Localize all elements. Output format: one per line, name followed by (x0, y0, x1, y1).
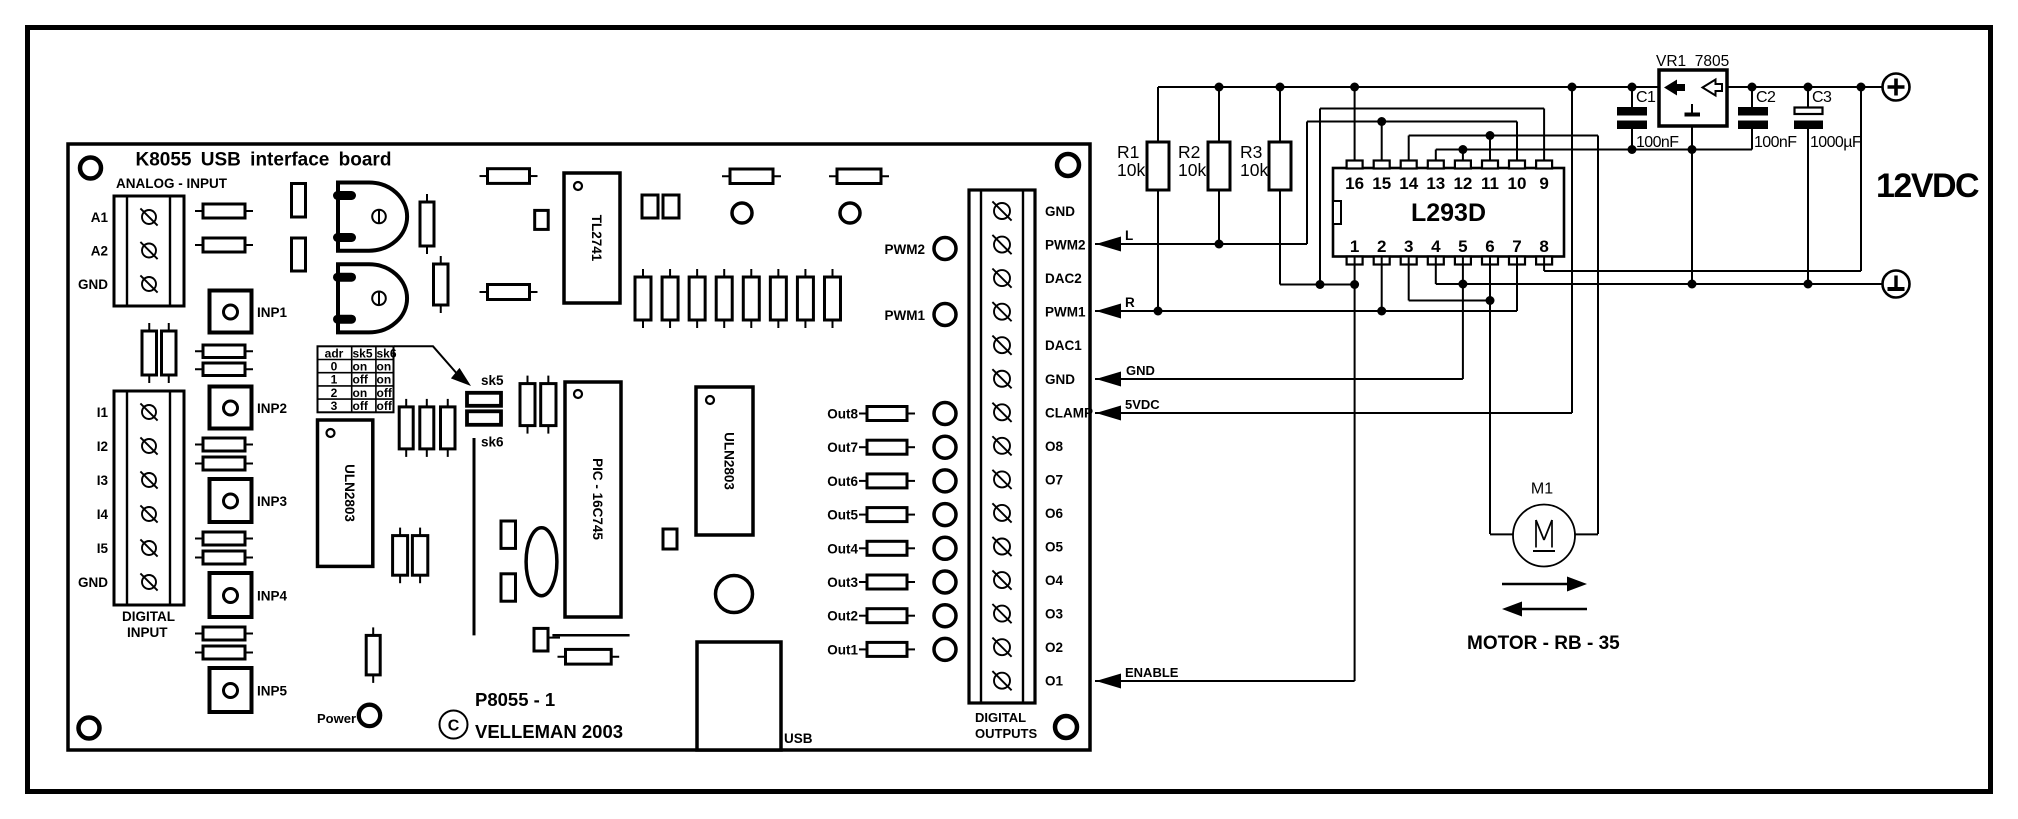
svg-text:1000µF: 1000µF (1810, 134, 1862, 151)
address table adr sk5 sk6 (318, 346, 397, 413)
divider line sk6 (473, 438, 476, 635)
arrow L (1096, 237, 1121, 252)
svg-text:DAC1: DAC1 (1045, 338, 1082, 353)
resistor R3 (1269, 142, 1291, 190)
capacitor C1 (1617, 87, 1647, 150)
node enable branch (1316, 280, 1325, 289)
node 12V plus (1857, 83, 1866, 92)
resistor Out5 (859, 508, 915, 522)
LED Out5 (934, 504, 956, 526)
wire L line (1095, 243, 1307, 245)
svg-text:I1: I1 (97, 405, 109, 420)
wire out34 horizontal (1409, 135, 1598, 137)
svg-text:6: 6 (1485, 237, 1494, 256)
node pin2 R net (1377, 307, 1386, 316)
resistor Out2 (859, 609, 915, 623)
resistor top middle-left (480, 169, 538, 184)
svg-text:11: 11 (1481, 174, 1499, 193)
svg-text:C: C (448, 718, 460, 735)
svg-text:9: 9 (1539, 174, 1548, 193)
wire R3 top (1279, 87, 1281, 142)
resistor pair below ULN2803 (393, 528, 428, 584)
LED PWM1 (934, 304, 956, 326)
jumper INP2 (210, 387, 252, 429)
screw O1 out15 (992, 671, 1011, 690)
capacitor pair beside crystal (501, 521, 516, 601)
svg-text:Out5: Out5 (827, 508, 858, 523)
wire pin11 up (1489, 136, 1491, 161)
resistor pair INP1-INP2 b (195, 363, 253, 376)
node pin5 gnd (1458, 280, 1467, 289)
wire pin1 down enable (1354, 257, 1356, 682)
svg-text:10k: 10k (1178, 160, 1206, 180)
svg-text:off: off (377, 399, 393, 413)
svg-text:O7: O7 (1045, 472, 1063, 487)
screw O4 out12 (992, 570, 1011, 589)
svg-text:sk5: sk5 (353, 346, 373, 360)
wire VR1 gnd down (1691, 126, 1693, 284)
USB connector (697, 642, 781, 750)
svg-text:INP2: INP2 (257, 401, 287, 416)
jumper INP4 (210, 573, 252, 617)
resistor R2 (1208, 142, 1230, 190)
svg-text:C3: C3 (1812, 89, 1832, 106)
trimmer RV2 (333, 264, 407, 332)
screw O5 out11 (992, 537, 1011, 556)
svg-text:PIC - 16C745: PIC - 16C745 (590, 458, 605, 540)
wire motor right vertical (1597, 136, 1599, 535)
resistor single above Power (366, 627, 380, 683)
svg-text:INP1: INP1 (257, 305, 288, 320)
node 5V R2 (1215, 83, 1224, 92)
resistor pair INP4-INP5 a (195, 627, 253, 640)
svg-text:DIGITAL: DIGITAL (122, 609, 175, 624)
wire 12V vertical (1860, 87, 1862, 271)
svg-text:VELLEMAN 2003: VELLEMAN 2003 (475, 721, 623, 742)
svg-text:R: R (1125, 295, 1135, 310)
resistor top for LD1 (722, 169, 781, 184)
screw DAC2 out3 (992, 269, 1011, 288)
screw I3 (140, 471, 157, 488)
LED Out3 (934, 571, 956, 593)
svg-text:INP5: INP5 (257, 684, 288, 699)
svg-text:CLAMP: CLAMP (1045, 405, 1093, 420)
IC PIC-16C745 (565, 382, 621, 617)
capacitor C2 (1738, 87, 1768, 150)
screw GND out6 (992, 369, 1011, 388)
resistor bottom middle (558, 649, 620, 664)
wire out12 horizontal (1409, 300, 1490, 302)
LED LD2 (840, 203, 860, 223)
LED Out4 (934, 537, 956, 559)
wire 12V horizontal (1544, 270, 1861, 272)
svg-text:A2: A2 (91, 244, 108, 259)
wire VR1 out to plus (1727, 86, 1882, 88)
svg-text:K8055 USB interface board: K8055 USB interface board (136, 149, 392, 170)
crystal X1 (526, 528, 557, 596)
screw GND (140, 573, 157, 590)
terminal block SK2 analog input (114, 196, 184, 306)
svg-text:Out4: Out4 (827, 541, 858, 556)
svg-text:sk6: sk6 (377, 346, 397, 360)
wire enable net horizontal (1280, 284, 1355, 286)
svg-text:on: on (353, 360, 368, 374)
svg-text:1: 1 (1350, 237, 1359, 256)
pin boxes top (1347, 161, 1553, 169)
mounting hole bottom-right (1055, 716, 1077, 738)
wire R line (1095, 310, 1517, 312)
svg-text:Out8: Out8 (827, 407, 858, 422)
svg-text:4: 4 (1431, 237, 1441, 256)
screw O2 out14 (992, 638, 1011, 657)
svg-text:on: on (377, 373, 392, 387)
node gnd C3 bottom (1804, 280, 1813, 289)
svg-text:ENABLE: ENABLE (1125, 665, 1179, 680)
svg-text:Power: Power (317, 711, 356, 726)
svg-text:Out1: Out1 (827, 642, 858, 657)
node R R1 (1154, 307, 1163, 316)
resistor Out8 (859, 407, 915, 421)
screw I4 (140, 505, 157, 522)
wire enable horizontal upper (1320, 108, 1544, 110)
svg-text:15: 15 (1372, 174, 1391, 193)
mounting hole top-left (80, 158, 101, 179)
wire pin2 down (1381, 257, 1383, 312)
svg-text:O5: O5 (1045, 540, 1064, 555)
wire pin6 down motor (1489, 257, 1491, 535)
svg-text:DAC2: DAC2 (1045, 271, 1082, 286)
jumper sk5 (467, 393, 501, 425)
screw I1 (140, 403, 157, 420)
svg-text:100nF: 100nF (1754, 134, 1797, 151)
svg-text:I3: I3 (97, 473, 109, 488)
label DIGITAL OUTPUTS (975, 710, 1037, 741)
svg-text:TL2741: TL2741 (589, 215, 604, 262)
svg-text:13: 13 (1426, 174, 1445, 193)
svg-text:off: off (377, 386, 393, 400)
screw analog GND (140, 275, 157, 292)
terminal earth (1883, 271, 1910, 298)
svg-text:PWM2: PWM2 (1045, 238, 1086, 253)
svg-text:GND: GND (78, 277, 108, 292)
svg-text:O6: O6 (1045, 506, 1064, 521)
resistor pair INP3-INP4 a (195, 532, 253, 545)
resistor row A1 (195, 204, 253, 218)
svg-text:P8055 - 1: P8055 - 1 (475, 689, 555, 710)
arrow GND (1096, 372, 1121, 387)
wire pin13 up (1435, 150, 1437, 161)
pin numbers top 16-9 (1345, 174, 1549, 193)
screw CLAMP out7 (992, 403, 1011, 422)
wire 5VDC vertical (1571, 87, 1573, 413)
svg-text:OUTPUTS: OUTPUTS (975, 726, 1037, 741)
svg-text:VR1 7805: VR1 7805 (1656, 53, 1729, 70)
screw I2 (140, 437, 157, 454)
resistor Out4 (859, 541, 915, 555)
resistor pair INP4-INP5 b (195, 646, 253, 659)
wire L net vertical (1306, 122, 1308, 245)
screw A2 (140, 242, 157, 259)
wire R2 top (1218, 87, 1220, 142)
screw O6 out10 (992, 503, 1011, 522)
svg-text:R3: R3 (1240, 142, 1262, 162)
pin numbers bottom 1-8 (1350, 237, 1549, 256)
screw GND out1 (992, 201, 1011, 220)
wire pin14 up (1408, 136, 1410, 161)
wire 5V rail (1158, 86, 1659, 88)
voltage regulator VR1 7805 (1659, 70, 1727, 126)
svg-text:USB: USB (784, 731, 813, 746)
wire pin3 down (1408, 257, 1410, 301)
resistor pair INP2-INP3 a (195, 438, 253, 451)
svg-text:L: L (1125, 228, 1133, 243)
svg-text:PWM1: PWM1 (1045, 305, 1086, 320)
node pin11 out3 (1486, 131, 1495, 140)
svg-text:C2: C2 (1756, 89, 1776, 106)
svg-text:5VDC: 5VDC (1125, 397, 1160, 412)
node C3 top (1804, 83, 1813, 92)
wire GND line (1095, 378, 1463, 380)
terminal block SK1 digital outputs (969, 190, 1035, 703)
jumper INP3 (210, 479, 252, 522)
node L R2 (1215, 240, 1224, 249)
resistor right of RV1 (420, 194, 434, 254)
svg-text:ANALOG - INPUT: ANALOG - INPUT (116, 176, 228, 191)
Power LED (359, 705, 380, 726)
diode small rect bottom (534, 628, 560, 651)
capacitor right of crystal (663, 529, 677, 549)
svg-text:10: 10 (1508, 174, 1527, 193)
capacitor pair beside trimmers (292, 184, 306, 272)
svg-text:C1: C1 (1636, 89, 1656, 106)
screw A1 (140, 208, 157, 225)
wire R1 bottom to R line (1157, 190, 1159, 311)
svg-text:I4: I4 (97, 507, 109, 522)
svg-text:GND: GND (1045, 204, 1075, 219)
svg-text:7: 7 (1512, 237, 1521, 256)
screw PWM1 out4 (992, 302, 1011, 321)
svg-text:PWM1: PWM1 (885, 308, 926, 323)
svg-text:Out3: Out3 (827, 575, 858, 590)
LED LD1 (732, 203, 752, 223)
node pin15 L net (1377, 117, 1386, 126)
svg-text:A1: A1 (91, 210, 109, 225)
svg-text:O2: O2 (1045, 640, 1063, 655)
arrow motor left (1502, 602, 1587, 617)
svg-text:5: 5 (1458, 237, 1467, 256)
svg-text:O3: O3 (1045, 607, 1064, 622)
resistor Out1 (859, 642, 915, 656)
wire gnd rail (1436, 283, 1882, 285)
op-amp U2 L293D body (1333, 168, 1564, 257)
node gnd vr1 bottom (1688, 280, 1697, 289)
wire pin4 down (1435, 257, 1437, 285)
svg-text:1: 1 (331, 373, 338, 387)
copyright symbol (440, 711, 468, 739)
svg-text:12VDC: 12VDC (1876, 167, 1979, 205)
wire segment bottom middle (552, 634, 629, 637)
resistor Out7 (859, 440, 915, 454)
LED Out7 (934, 436, 956, 458)
screw O7 out9 (992, 470, 1011, 489)
svg-text:14: 14 (1399, 174, 1418, 193)
node 5V pin16 (1350, 83, 1359, 92)
svg-text:off: off (353, 399, 369, 413)
resistor pair INP1-INP2 a (195, 345, 253, 358)
svg-text:on: on (377, 360, 392, 374)
svg-text:sk5: sk5 (481, 373, 504, 388)
LED Out8 (934, 403, 956, 425)
svg-text:Out6: Out6 (827, 474, 858, 489)
svg-text:O8: O8 (1045, 439, 1064, 454)
resistor pair above PIC (520, 376, 556, 434)
capacitor C3 polarized (1794, 87, 1823, 284)
svg-text:2: 2 (1377, 237, 1386, 256)
svg-text:GND: GND (78, 575, 108, 590)
pin boxes bottom (1347, 257, 1553, 265)
wire ENABLE line (1095, 680, 1355, 682)
svg-text:Out2: Out2 (827, 609, 858, 624)
wire R1 top (1157, 87, 1159, 142)
label R3 10k (1240, 142, 1268, 180)
wire pin10 up (1516, 122, 1518, 161)
node 5V C1 (1628, 83, 1637, 92)
mounting hole bottom-left (79, 718, 100, 739)
LED Out6 (934, 470, 956, 492)
svg-text:INP4: INP4 (257, 589, 288, 604)
svg-text:DIGITAL: DIGITAL (975, 710, 1026, 725)
mounting hole top-right (1057, 154, 1079, 176)
capacitor small mid (535, 210, 549, 229)
svg-text:on: on (353, 386, 368, 400)
capacitor pair top middle (642, 195, 679, 218)
wire gnd top horizontal (1436, 149, 1752, 151)
resistor Out6 (859, 474, 915, 488)
resistor pair INP2-INP3 b (195, 457, 253, 470)
node enable pin1 (1350, 280, 1359, 289)
wire pin7 down (1516, 257, 1518, 312)
node gnd C1 (1628, 145, 1637, 154)
label R1 10k (1117, 142, 1145, 180)
svg-text:adr: adr (325, 346, 344, 360)
svg-text:2: 2 (331, 386, 338, 400)
svg-text:MOTOR - RB - 35: MOTOR - RB - 35 (1467, 633, 1620, 654)
wire R3 bottom to enable net (1279, 190, 1281, 285)
svg-text:Out7: Out7 (827, 440, 858, 455)
vertical resistor pair left (142, 323, 176, 383)
wire pin15 up (1381, 122, 1383, 161)
arrow 5VDC (1096, 406, 1121, 421)
LED Out2 (934, 605, 956, 627)
wire pin16 to 5V (1354, 87, 1356, 161)
wire pin8 down (1543, 257, 1545, 272)
resistor group of three (399, 399, 455, 457)
svg-text:12: 12 (1453, 174, 1472, 193)
node gnd VR1 (1688, 145, 1697, 154)
jumper INP1 (210, 291, 252, 333)
pointer line to sk5 (394, 346, 471, 386)
resistor top for LD2 (829, 169, 889, 184)
resistor R1 (1147, 142, 1169, 190)
wire pin9 up (1543, 109, 1545, 161)
resistor mid-left (480, 285, 538, 300)
resistor pair INP3-INP4 b (195, 551, 253, 564)
svg-text:R2: R2 (1178, 142, 1200, 162)
motor M1 (1490, 505, 1598, 567)
screw O3 out13 (992, 604, 1011, 623)
svg-text:PWM2: PWM2 (885, 242, 926, 257)
terminal plus 12V (1883, 74, 1910, 101)
svg-text:10k: 10k (1240, 160, 1268, 180)
svg-text:sk6: sk6 (481, 435, 504, 450)
IC ULN2803 right (696, 387, 753, 535)
svg-text:I5: I5 (97, 541, 109, 556)
node pin12 gnd (1458, 145, 1467, 154)
arrow ENABLE (1096, 674, 1121, 689)
svg-text:O1: O1 (1045, 674, 1064, 689)
svg-text:ULN2803: ULN2803 (342, 464, 357, 522)
arrow motor right (1502, 577, 1587, 592)
svg-text:3: 3 (331, 399, 338, 413)
IC TL2741 (564, 173, 620, 303)
label DIGITAL INPUT (122, 609, 175, 640)
wire 5VDC line (1095, 412, 1572, 414)
svg-text:R1: R1 (1117, 142, 1139, 162)
screw DAC1 out5 (992, 336, 1011, 355)
electrolytic capacitor circle (716, 576, 753, 613)
wire pin12 up (1462, 150, 1464, 161)
svg-text:16: 16 (1345, 174, 1364, 193)
resistor row A2 (195, 238, 253, 252)
board outline K8055 (68, 144, 1090, 750)
resistor Out3 (859, 575, 915, 589)
svg-text:M1: M1 (1531, 481, 1553, 498)
screw I5 (140, 539, 157, 556)
svg-text:off: off (353, 373, 369, 387)
svg-text:3: 3 (1404, 237, 1413, 256)
LED Out1 (934, 638, 956, 660)
screw PWM2 out2 (992, 235, 1011, 254)
terminal block SK3 digital input (114, 391, 184, 605)
label R2 10k (1178, 142, 1206, 180)
svg-text:ULN2803: ULN2803 (722, 432, 737, 490)
node pin6 out2 (1486, 296, 1495, 305)
svg-text:0: 0 (331, 360, 338, 374)
resistor right of RV2 (434, 256, 449, 313)
LED PWM2 (934, 238, 956, 260)
node C2 top (1748, 83, 1757, 92)
jumper INP5 (210, 668, 252, 712)
wire R2 bottom to L line (1218, 190, 1220, 244)
wire enable vertical upper (1319, 109, 1321, 285)
screw O8 out8 (992, 436, 1011, 455)
svg-text:INP3: INP3 (257, 494, 288, 509)
node 5V R3 (1276, 83, 1285, 92)
svg-text:100nF: 100nF (1636, 134, 1679, 151)
wire L net horizontal upper (1307, 121, 1517, 123)
svg-text:O4: O4 (1045, 573, 1064, 588)
svg-text:INPUT: INPUT (127, 625, 168, 640)
node 5V branch 5VDC (1568, 83, 1577, 92)
svg-text:I2: I2 (97, 439, 108, 454)
svg-text:L293D: L293D (1411, 199, 1486, 227)
svg-text:10k: 10k (1117, 160, 1145, 180)
resistor array 8x (635, 269, 840, 328)
arrow R (1096, 304, 1121, 319)
svg-text:GND: GND (1045, 372, 1075, 387)
wire pin5 down (1462, 257, 1464, 380)
svg-text:8: 8 (1539, 237, 1548, 256)
